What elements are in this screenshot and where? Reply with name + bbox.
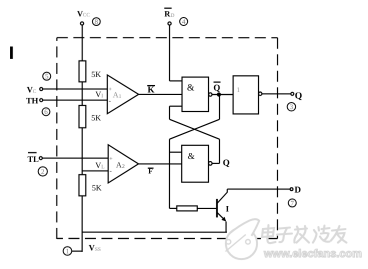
svg-text:+: + <box>108 87 112 93</box>
wire A1 output K to gate G1 <box>139 93 182 95</box>
wire RD vertical <box>169 25 171 81</box>
terminal RD pin 4 <box>168 22 171 25</box>
wire VCC vertical <box>81 25 83 61</box>
figure label I <box>10 47 13 59</box>
resistor R2 5K <box>79 105 86 127</box>
svg-text:&: & <box>188 151 195 161</box>
wire RD into G1 input 1 <box>170 80 183 82</box>
watermark logo circle <box>225 219 259 259</box>
transistor T1 base bar <box>216 199 218 218</box>
terminal Q pin 3 <box>291 92 294 95</box>
pin circle 3 <box>287 103 295 111</box>
wire G3 output to Q terminal <box>262 93 291 95</box>
wire VC to A1 + input <box>43 88 108 90</box>
svg-text:5K: 5K <box>91 114 101 123</box>
resistor R3 5K <box>79 175 86 196</box>
svg-text:7: 7 <box>291 199 295 207</box>
wire Qbar to inverter <box>212 94 233 96</box>
svg-text:I: I <box>101 93 103 99</box>
svg-text:TH: TH <box>26 96 39 106</box>
inverter gate G3 <box>233 76 258 114</box>
junction dot Qbar node <box>217 93 220 96</box>
svg-text:5K: 5K <box>92 183 102 192</box>
G2 output bubble <box>208 162 212 166</box>
svg-text:6: 6 <box>44 108 48 116</box>
svg-text:&: & <box>187 84 195 94</box>
svg-text:Q: Q <box>223 158 230 168</box>
svg-text:CC: CC <box>83 12 91 18</box>
svg-text:1: 1 <box>119 94 122 100</box>
resistor R1 5K <box>79 61 86 82</box>
wire VSS terminal stub <box>72 250 82 252</box>
wire Q node vertical <box>218 139 220 163</box>
G3 output bubble <box>259 92 262 95</box>
wire emitter to rail <box>225 221 227 232</box>
wire divider node to A2 - input <box>82 170 108 172</box>
pin circle 6 <box>42 108 50 116</box>
wire VSS rail <box>82 231 227 233</box>
wire A2 output F to gate G2 <box>138 163 181 165</box>
wire base resistor feed <box>169 207 176 209</box>
svg-text:SS: SS <box>95 247 101 253</box>
op-amp comparator A2 <box>108 145 138 183</box>
svg-text:5K: 5K <box>91 70 101 79</box>
label VCC <box>10 8 302 254</box>
pin numbers gray <box>41 18 295 256</box>
wire R1 to R2 <box>81 82 83 106</box>
svg-text:D: D <box>171 13 175 19</box>
pin circle 2 <box>38 167 47 176</box>
svg-text:2: 2 <box>41 168 45 176</box>
wire collector to D terminal <box>227 188 290 190</box>
wire cross-couple diagonal B (Qbar to G2) <box>169 119 219 139</box>
svg-text:www.elecfans.com: www.elecfans.com <box>263 248 362 260</box>
nand gate G2 <box>182 145 209 182</box>
svg-text:5: 5 <box>45 73 49 81</box>
pin circle 1 <box>63 247 72 256</box>
pin circle 4 <box>180 17 188 25</box>
svg-text:1: 1 <box>237 86 241 94</box>
wire left cross vertical down to base resistor <box>168 139 170 208</box>
svg-text:8: 8 <box>95 18 99 26</box>
wire Qbar node vertical <box>219 95 221 120</box>
G1 output bubble <box>209 93 212 96</box>
pin circle 5 <box>43 72 51 80</box>
terminal VCC pin 8 <box>80 22 83 25</box>
terminal TH pin 6 <box>40 99 43 102</box>
transistor T1 emitter with arrow <box>217 212 226 221</box>
wire Q output stub <box>212 162 219 164</box>
pin circle 7 <box>288 199 296 207</box>
svg-text:V: V <box>95 90 101 99</box>
watermark text dianzi fashaoyou (stylized strokes) <box>262 225 347 243</box>
svg-text:C: C <box>33 89 37 95</box>
resistor R4 base <box>177 206 198 211</box>
wire TH to A1 - input <box>43 99 108 101</box>
dashed IC boundary box <box>57 38 278 239</box>
svg-text:+: + <box>109 157 113 163</box>
svg-text:2: 2 <box>122 164 125 170</box>
svg-text:D: D <box>294 184 301 194</box>
svg-text:3: 3 <box>290 103 294 111</box>
transistor T1 collector <box>217 189 227 203</box>
svg-text:R: R <box>164 9 170 18</box>
terminal TL pin 2 <box>39 157 42 160</box>
svg-text:TL: TL <box>27 154 39 164</box>
svg-text:Q: Q <box>213 82 220 92</box>
wire R4 to base <box>197 207 216 209</box>
terminal VC pin 5 <box>40 88 43 91</box>
svg-text:1: 1 <box>66 247 70 255</box>
wire R2 to R3 <box>81 128 83 175</box>
wire TL to A2 + input <box>42 157 108 159</box>
terminal D pin 7 <box>290 188 293 191</box>
op-amp comparator A1 <box>107 75 138 114</box>
wire cross-couple diagonal A (Q to G1) <box>169 119 219 139</box>
svg-text:Q: Q <box>295 91 302 101</box>
wire R3 to VSS <box>81 196 83 252</box>
svg-text:4: 4 <box>182 18 186 26</box>
wire G1 input 3 stub <box>170 105 183 107</box>
pin circle 8 <box>38 17 296 255</box>
nand gate G1 <box>182 77 209 111</box>
wire G2 input 1 stub <box>169 151 181 153</box>
